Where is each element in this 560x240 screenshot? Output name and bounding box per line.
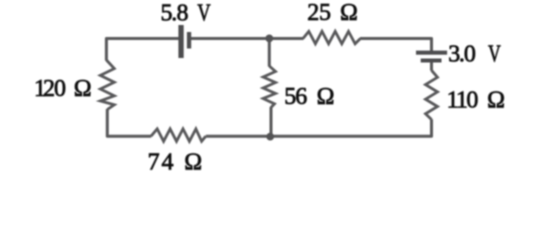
svg-text:8: 8 bbox=[177, 1, 189, 27]
svg-text:6: 6 bbox=[295, 84, 307, 110]
svg-text:0: 0 bbox=[464, 42, 476, 68]
svg-text:Ω: Ω bbox=[317, 84, 335, 110]
svg-text:7: 7 bbox=[148, 150, 160, 176]
svg-text:5: 5 bbox=[319, 0, 331, 26]
svg-text:4: 4 bbox=[162, 150, 174, 176]
svg-text:Ω: Ω bbox=[74, 76, 92, 102]
svg-text:Ω: Ω bbox=[340, 0, 358, 26]
svg-text:0: 0 bbox=[54, 76, 66, 102]
svg-text:Ω: Ω bbox=[487, 88, 505, 114]
svg-text:2: 2 bbox=[307, 0, 319, 26]
svg-text:Ω: Ω bbox=[184, 150, 202, 176]
svg-text:0: 0 bbox=[466, 88, 478, 114]
svg-text:V: V bbox=[488, 42, 501, 68]
svg-text:V: V bbox=[197, 1, 211, 27]
